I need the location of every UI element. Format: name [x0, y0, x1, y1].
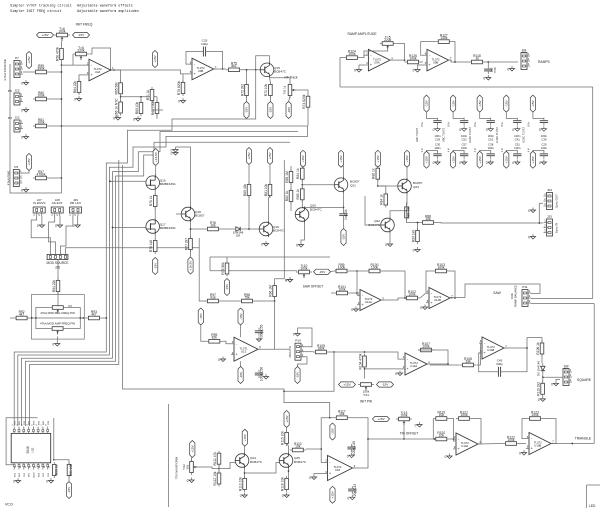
- svg-text:4k7: 4k7: [91, 312, 96, 316]
- svg-text:Q23: Q23: [413, 185, 419, 189]
- svg-text:C39: C39: [541, 138, 547, 142]
- svg-text:0: 0: [240, 494, 242, 498]
- svg-text:4.7kA COARSE: 4.7kA COARSE: [3, 59, 7, 81]
- svg-text:100k: 100k: [37, 120, 45, 124]
- svg-text:R80 43k: R80 43k: [243, 184, 247, 197]
- svg-text:100n: 100n: [488, 146, 495, 150]
- svg-text:100n C56: 100n C56: [260, 367, 264, 381]
- svg-text:0: 0: [420, 306, 422, 310]
- svg-text:P10: P10: [295, 339, 301, 343]
- svg-text:R68 750k: R68 750k: [151, 101, 155, 115]
- svg-text:BC847C: BC847C: [273, 229, 285, 233]
- svg-text:-15V: -15V: [153, 262, 157, 269]
- svg-text:100k: 100k: [510, 292, 514, 299]
- svg-text:RAMP AMPLITUDE: RAMP AMPLITUDE: [347, 32, 377, 36]
- svg-text:C58: C58: [493, 67, 497, 73]
- svg-text:0: 0: [52, 343, 54, 347]
- svg-text:0: 0: [512, 128, 514, 132]
- svg-text:4k7: 4k7: [19, 312, 24, 316]
- svg-text:100k: 100k: [409, 56, 417, 60]
- svg-text:100k: 100k: [300, 266, 308, 270]
- svg-text:TRI WAVEFORM: TRI WAVEFORM: [175, 456, 179, 479]
- svg-text:10k: 10k: [210, 223, 216, 227]
- svg-text:-15V: -15V: [382, 383, 389, 387]
- svg-text:INIT PW: INIT PW: [360, 400, 372, 404]
- svg-text:0: 0: [21, 189, 23, 193]
- svg-text:R85 1M: R85 1M: [285, 171, 289, 183]
- svg-text:+15V: +15V: [285, 414, 289, 422]
- svg-text:0: 0: [309, 476, 311, 480]
- svg-text:R85 1k: R85 1k: [296, 189, 300, 200]
- svg-text:R111 47k: R111 47k: [213, 452, 217, 466]
- svg-text:R115 10k: R115 10k: [280, 431, 284, 445]
- svg-text:0: 0: [13, 480, 15, 484]
- svg-text:C52: C52: [462, 138, 468, 142]
- svg-text:R82 1k: R82 1k: [285, 190, 289, 201]
- svg-text:R106 1k: R106 1k: [536, 342, 540, 355]
- svg-text:R81 10k: R81 10k: [264, 184, 268, 197]
- svg-text:-15V: -15V: [287, 106, 291, 113]
- svg-text:0: 0: [507, 68, 509, 72]
- svg-text:-15V: -15V: [239, 371, 243, 378]
- svg-text:R112 10k: R112 10k: [213, 471, 217, 485]
- svg-text:0: 0: [282, 494, 284, 498]
- svg-text:+15V: +15V: [505, 155, 509, 163]
- svg-text:100p: 100p: [201, 42, 208, 46]
- svg-text:4790k: 4790k: [37, 172, 46, 176]
- svg-text:100k: 100k: [371, 265, 379, 269]
- svg-text:+15V: +15V: [478, 155, 482, 163]
- svg-text:R66 1k NTC: R66 1k NTC: [114, 98, 118, 117]
- svg-text:-15V: -15V: [505, 99, 509, 106]
- svg-text:SAW OFFSET: SAW OFFSET: [303, 285, 324, 289]
- svg-text:100k: 100k: [408, 292, 416, 296]
- svg-text:0: 0: [46, 480, 48, 484]
- svg-text:8k2: 8k2: [231, 64, 236, 68]
- svg-text:0: 0: [512, 161, 514, 165]
- svg-text:-15V: -15V: [451, 99, 455, 106]
- svg-text:0: 0: [486, 161, 488, 165]
- svg-text:+15V: +15V: [191, 444, 195, 452]
- svg-text:-15V: -15V: [425, 99, 429, 106]
- svg-text:180k: 180k: [317, 346, 325, 350]
- svg-text:4 V-: 4 V-: [448, 148, 451, 152]
- svg-text:10k: 10k: [425, 217, 431, 221]
- svg-text:R70 820k: R70 820k: [177, 81, 181, 95]
- svg-text:R64 22k: R64 22k: [73, 81, 77, 94]
- svg-text:0: 0: [354, 69, 356, 73]
- svg-text:D8: D8: [236, 234, 240, 238]
- svg-text:+15V: +15V: [331, 490, 335, 498]
- svg-text:Tr11: Tr11: [363, 393, 369, 397]
- svg-text:-15V: -15V: [239, 312, 243, 319]
- svg-text:0: 0: [113, 117, 115, 121]
- svg-text:U14A: U14A: [410, 364, 417, 368]
- svg-text:BCB47C: BCB47C: [250, 460, 263, 464]
- svg-text:20p C43: 20p C43: [353, 484, 357, 497]
- svg-text:91k: 91k: [210, 295, 216, 299]
- svg-text:330p: 330p: [496, 362, 503, 366]
- svg-text:BC847C: BC847C: [310, 208, 322, 212]
- svg-text:+15V: +15V: [451, 155, 455, 163]
- svg-text:C53: C53: [488, 138, 494, 142]
- svg-text:100k: 100k: [348, 52, 356, 56]
- svg-text:0: 0: [459, 161, 461, 165]
- svg-text:RAMP BALANCE: RAMP BALANCE: [514, 285, 518, 307]
- svg-text:4 V-: 4 V-: [474, 148, 477, 152]
- svg-text:0: 0: [55, 224, 57, 228]
- svg-text:R119 2k2: R119 2k2: [536, 382, 540, 396]
- svg-text:47kA MOD AMP FREQ PW: 47kA MOD AMP FREQ PW: [40, 321, 75, 325]
- svg-text:+15V: +15V: [27, 55, 31, 63]
- svg-text:R84 1k: R84 1k: [380, 194, 384, 205]
- svg-text:0: 0: [285, 279, 287, 283]
- svg-text:TrB 1k: TrB 1k: [283, 85, 287, 94]
- svg-text:U10A: U10A: [461, 444, 468, 448]
- svg-text:100n C55: 100n C55: [260, 324, 264, 338]
- svg-text:Adjustable waveform offsets: Adjustable waveform offsets: [77, 4, 133, 9]
- svg-text:0: 0: [486, 128, 488, 132]
- svg-text:100k: 100k: [531, 413, 539, 417]
- svg-text:220k: 220k: [384, 38, 392, 42]
- svg-text:100k: 100k: [58, 29, 66, 33]
- svg-text:100n: 100n: [461, 146, 468, 150]
- svg-text:R77 2k7: R77 2k7: [184, 238, 188, 250]
- svg-text:0: 0: [351, 308, 353, 312]
- svg-text:TRIANGLE: TRIANGLE: [575, 437, 592, 441]
- svg-text:-15V: -15V: [245, 106, 249, 113]
- svg-text:+15V: +15V: [301, 154, 305, 162]
- svg-text:+15V: +15V: [425, 155, 429, 163]
- svg-text:4 V-: 4 V-: [501, 148, 504, 152]
- svg-text:20k: 20k: [186, 464, 190, 469]
- svg-text:U18: U18: [335, 468, 341, 472]
- svg-text:3046: 3046: [26, 446, 30, 454]
- svg-text:0: 0: [178, 100, 180, 104]
- svg-text:0: 0: [293, 333, 295, 337]
- svg-text:0: 0: [171, 149, 173, 153]
- svg-text:0: 0: [539, 128, 541, 132]
- svg-text:0: 0: [413, 249, 415, 253]
- svg-text:J25: J25: [547, 215, 552, 219]
- svg-text:J23: J23: [15, 89, 20, 93]
- svg-text:BCB47C: BCB47C: [274, 69, 287, 73]
- svg-text:P11: P11: [522, 285, 528, 289]
- svg-text:+15V: +15V: [343, 383, 351, 387]
- svg-text:75k: 75k: [244, 295, 250, 299]
- svg-text:10k: 10k: [439, 433, 445, 437]
- svg-text:0: 0: [261, 243, 263, 247]
- svg-text:INIT FREQ: INIT FREQ: [76, 23, 93, 27]
- svg-text:R71 1k: R71 1k: [146, 89, 150, 100]
- svg-text:10k: 10k: [295, 444, 301, 448]
- svg-text:R113 10k: R113 10k: [238, 477, 242, 491]
- svg-text:Sync OUT: Sync OUT: [555, 194, 559, 208]
- svg-text:R75 1k8: R75 1k8: [149, 240, 153, 252]
- svg-text:U2C TL072: U2C TL072: [415, 127, 419, 142]
- svg-text:SAW: SAW: [493, 291, 501, 295]
- svg-text:R69 10k: R69 10k: [135, 102, 139, 115]
- svg-text:0: 0: [519, 452, 521, 456]
- svg-text:0: 0: [37, 224, 39, 228]
- svg-text:33k: 33k: [465, 359, 471, 363]
- svg-text:0: 0: [21, 136, 23, 140]
- svg-text:MMBF4391: MMBF4391: [160, 182, 176, 186]
- svg-text:100k: 100k: [437, 265, 445, 269]
- svg-text:+15V: +15V: [339, 154, 343, 162]
- svg-text:R90 1k: R90 1k: [55, 464, 59, 475]
- svg-text:0: 0: [415, 424, 417, 428]
- svg-text:0: 0: [538, 398, 540, 402]
- svg-text:U9C TL072: U9C TL072: [442, 127, 446, 142]
- svg-text:+15V: +15V: [377, 417, 385, 421]
- svg-text:R91 10k: R91 10k: [69, 464, 73, 477]
- svg-text:D6 1N4148: D6 1N4148: [537, 361, 541, 377]
- svg-text:-15V: -15V: [478, 99, 482, 106]
- svg-text:+15V: +15V: [247, 151, 251, 159]
- svg-text:J26: J26: [55, 266, 60, 270]
- svg-text:+15V: +15V: [268, 151, 272, 159]
- svg-text:U9A: U9A: [374, 60, 380, 64]
- svg-text:BC857: BC857: [195, 214, 205, 218]
- svg-text:U9B: U9B: [433, 60, 439, 64]
- svg-text:0: 0: [347, 496, 349, 500]
- svg-text:0: 0: [528, 236, 530, 240]
- svg-text:-15V: -15V: [331, 427, 335, 434]
- svg-text:R87 10k: R87 10k: [407, 206, 411, 219]
- svg-text:0: 0: [347, 454, 349, 458]
- svg-text:P6: P6: [14, 165, 18, 169]
- svg-text:R73 10k: R73 10k: [264, 84, 268, 97]
- svg-text:R79 56k: R79 56k: [221, 262, 225, 275]
- svg-text:R84 1k: R84 1k: [296, 168, 300, 179]
- svg-text:220k: 220k: [77, 48, 85, 52]
- svg-text:100k: 100k: [400, 413, 408, 417]
- svg-text:0: 0: [385, 243, 387, 247]
- svg-text:U13C TL072: U13C TL072: [521, 127, 525, 143]
- svg-text:100k: 100k: [338, 287, 346, 291]
- svg-text:100k: 100k: [37, 93, 45, 97]
- svg-text:0: 0: [413, 69, 415, 73]
- svg-text:100k: 100k: [507, 438, 515, 442]
- svg-text:100k: 100k: [460, 413, 468, 417]
- svg-text:-15V: -15V: [78, 33, 85, 37]
- svg-text:10k: 10k: [439, 413, 445, 417]
- svg-text:-15V: -15V: [199, 312, 203, 319]
- svg-text:J24: J24: [547, 188, 552, 192]
- svg-text:130k: 130k: [440, 36, 448, 40]
- svg-text:0: 0: [21, 109, 23, 113]
- svg-text:-15V: -15V: [319, 270, 326, 274]
- svg-text:390k: 390k: [37, 66, 45, 70]
- svg-text:P7: P7: [15, 56, 19, 60]
- svg-text:+15V: +15V: [243, 433, 247, 441]
- svg-text:VCO: VCO: [5, 503, 13, 507]
- svg-text:J27: J27: [37, 198, 42, 202]
- svg-text:0: 0: [21, 82, 23, 86]
- svg-text:0: 0: [395, 372, 397, 376]
- svg-text:C41: C41: [515, 138, 521, 142]
- svg-text:Q21: Q21: [350, 184, 356, 188]
- svg-text:B102: B102: [33, 472, 35, 478]
- svg-text:R96 1M: R96 1M: [268, 285, 272, 297]
- svg-text:R72 2k2: R72 2k2: [240, 84, 244, 96]
- svg-text:LED: LED: [589, 504, 596, 508]
- svg-text:Adjustable waveform amplitudes: Adjustable waveform amplitudes: [77, 9, 139, 14]
- svg-text:J29: J29: [73, 198, 78, 202]
- svg-text:U11C TL072: U11C TL072: [495, 127, 499, 143]
- svg-text:10k: 10k: [339, 412, 345, 416]
- svg-text:8 V+: 8 V+: [474, 121, 477, 127]
- svg-text:TRI OFFSET: TRI OFFSET: [400, 432, 419, 436]
- svg-text:-15V: -15V: [296, 371, 300, 378]
- svg-text:+15V: +15V: [376, 154, 380, 162]
- svg-text:R94 22k: R94 22k: [52, 280, 56, 293]
- svg-text:J22: J22: [15, 116, 20, 120]
- svg-text:100n C49: 100n C49: [352, 441, 356, 455]
- svg-text:0: 0: [539, 161, 541, 165]
- svg-text:100k: 100k: [338, 265, 346, 269]
- svg-text:R86 1k: R86 1k: [372, 168, 376, 179]
- svg-text:+15V: +15V: [41, 33, 49, 37]
- svg-text:MMBF4391: MMBF4391: [160, 226, 176, 230]
- svg-text:8 V+: 8 V+: [527, 121, 530, 127]
- svg-text:Sync IN: Sync IN: [555, 223, 559, 234]
- svg-text:R104 470k: R104 470k: [358, 353, 362, 369]
- svg-text:+15V: +15V: [27, 157, 31, 165]
- svg-text:R74 620k: R74 620k: [302, 94, 306, 108]
- svg-text:R116 10k: R116 10k: [280, 477, 284, 491]
- svg-text:U12A: U12A: [365, 300, 372, 304]
- svg-text:R58 470k: R58 470k: [55, 47, 59, 61]
- svg-text:U3B: U3B: [198, 69, 204, 73]
- svg-text:-15V: -15V: [225, 283, 229, 290]
- svg-text:0: 0: [433, 128, 435, 132]
- svg-text:R90 1k0: R90 1k0: [411, 230, 415, 242]
- svg-text:4 V-: 4 V-: [527, 148, 530, 152]
- svg-text:Simpler INIT FREQ circuit: Simpler INIT FREQ circuit: [10, 9, 62, 14]
- svg-text:8 V+: 8 V+: [421, 121, 424, 127]
- svg-text:MOD SOURCE: MOD SOURCE: [47, 261, 69, 265]
- svg-text:+15V: +15V: [405, 154, 409, 162]
- svg-text:+16.5V: +16.5V: [154, 151, 158, 162]
- svg-text:47kA PW: 47kA PW: [288, 346, 292, 358]
- svg-text:R65 56k: R65 56k: [114, 82, 118, 95]
- svg-text:100n: 100n: [514, 146, 521, 150]
- svg-text:U13: U13: [241, 349, 247, 353]
- svg-text:U2A: U2A: [95, 70, 101, 74]
- svg-text:Simpler V/OCT tracking circuit: Simpler V/OCT tracking circuit: [10, 4, 72, 9]
- svg-text:1n C34: 1n C34: [344, 209, 348, 220]
- svg-text:B3: B3: [564, 367, 568, 371]
- svg-text:1k: 1k: [475, 56, 479, 60]
- svg-text:-15V: -15V: [531, 99, 535, 106]
- svg-text:0: 0: [445, 455, 447, 459]
- svg-text:0: 0: [551, 382, 553, 386]
- svg-text:0: 0: [187, 479, 189, 483]
- svg-text:0: 0: [74, 98, 76, 102]
- svg-text:47kA MOD BAL FREQ PW: 47kA MOD BAL FREQ PW: [40, 311, 75, 315]
- svg-text:100n: 100n: [541, 146, 548, 150]
- svg-text:C29: C29: [435, 138, 441, 142]
- svg-text:4 V-: 4 V-: [421, 148, 424, 152]
- svg-text:+16.5V: +16.5V: [189, 260, 193, 271]
- svg-text:8 V+: 8 V+: [448, 121, 451, 127]
- svg-text:J28: J28: [55, 198, 60, 202]
- svg-text:8 V+: 8 V+: [501, 121, 504, 127]
- svg-text:R3: R3: [522, 51, 526, 55]
- svg-text:100k: 100k: [422, 344, 430, 348]
- svg-text:U11: U11: [31, 447, 35, 452]
- svg-text:0: 0: [296, 244, 298, 248]
- svg-text:100n: 100n: [434, 146, 441, 150]
- svg-text:-15V: -15V: [269, 106, 273, 113]
- svg-text:-15V: -15V: [342, 233, 346, 240]
- svg-text:U12B: U12B: [434, 298, 441, 302]
- svg-text:0: 0: [133, 118, 135, 122]
- svg-text:0: 0: [218, 358, 220, 362]
- svg-text:U14B: U14B: [487, 348, 494, 352]
- svg-text:0: 0: [483, 77, 485, 81]
- svg-text:R78 1k: R78 1k: [149, 195, 153, 206]
- svg-text:+15V: +15V: [153, 54, 157, 62]
- svg-text:0: 0: [459, 128, 461, 132]
- svg-text:0: 0: [528, 209, 530, 213]
- svg-text:+15V: +15V: [531, 155, 535, 163]
- svg-text:U10B: U10B: [534, 444, 541, 448]
- svg-text:SQUARE: SQUARE: [577, 378, 592, 382]
- svg-text:U12C TL072: U12C TL072: [468, 127, 472, 143]
- svg-text:BCB47C: BCB47C: [294, 460, 307, 464]
- svg-text:0: 0: [433, 161, 435, 165]
- svg-text:RAMPS: RAMPS: [538, 60, 551, 64]
- svg-text:82k: 82k: [212, 336, 218, 340]
- svg-text:-15V: -15V: [67, 486, 71, 493]
